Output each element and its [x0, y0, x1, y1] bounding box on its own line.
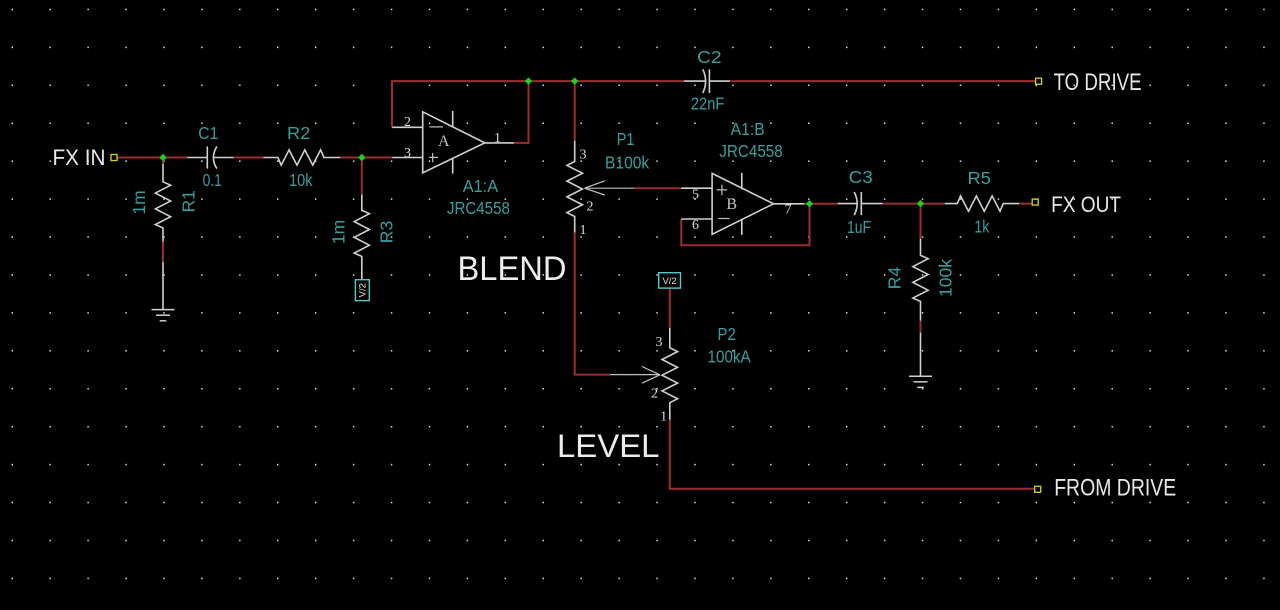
- wire C1 to R2: [234, 157, 264, 159]
- resistor R5: [945, 196, 1019, 211]
- port FX IN: [111, 155, 117, 161]
- wire V/2 label to P2 pin3: [669, 288, 671, 328]
- svg-text:2: 2: [587, 200, 594, 215]
- wire P1 pin1 to P2 wiper: [575, 232, 611, 374]
- svg-text:R4: R4: [884, 267, 904, 290]
- wire op-amp B output to C3: [804, 203, 838, 205]
- potentiometer P1: [567, 141, 635, 233]
- junction node at P1 top rail: [571, 77, 578, 84]
- svg-text:B: B: [726, 196, 737, 213]
- svg-text:3: 3: [404, 146, 411, 161]
- svg-text:R3: R3: [376, 221, 396, 243]
- op-amp U1A (A1:A): [392, 111, 514, 174]
- svg-text:1uF: 1uF: [847, 217, 871, 237]
- svg-text:3: 3: [656, 335, 663, 350]
- svg-text:P1: P1: [617, 129, 635, 149]
- svg-text:FX IN: FX IN: [53, 145, 106, 170]
- net label V/2 at P2: [659, 273, 681, 288]
- svg-text:5: 5: [692, 188, 699, 203]
- svg-text:R1: R1: [179, 190, 199, 212]
- wire R5 to FX OUT: [1019, 203, 1032, 205]
- svg-text:LEVEL: LEVEL: [557, 428, 660, 464]
- wire R2 to op-amp pin3: [340, 157, 392, 159]
- junction node at R2 / R3: [358, 154, 365, 161]
- capacitor C3: [838, 192, 883, 215]
- wire node to R1: [162, 158, 164, 164]
- wire R4 to ground: [920, 321, 922, 333]
- wire feedback pin2 to top rail: [392, 81, 684, 127]
- resistor R2: [264, 150, 341, 165]
- svg-text:A: A: [438, 133, 450, 150]
- wire node to R4: [920, 204, 922, 239]
- svg-text:1: 1: [494, 131, 501, 146]
- svg-text:BLEND: BLEND: [458, 250, 567, 288]
- svg-text:TO DRIVE: TO DRIVE: [1054, 69, 1142, 96]
- op-amp U1B (A1:B): [681, 173, 804, 235]
- svg-text:0.1: 0.1: [203, 170, 222, 190]
- svg-text:1m: 1m: [129, 190, 149, 214]
- svg-text:C1: C1: [198, 123, 218, 143]
- ground at R4: [909, 376, 932, 387]
- svg-text:100kA: 100kA: [708, 347, 751, 367]
- potentiometer P2: [610, 328, 677, 420]
- wire op-amp A output to top rail: [514, 81, 529, 143]
- svg-text:JRC4558: JRC4558: [447, 198, 510, 218]
- svg-text:FROM DRIVE: FROM DRIVE: [1054, 474, 1176, 501]
- svg-text:R5: R5: [968, 168, 991, 188]
- wire P1 wiper to op-amp B pin5: [635, 187, 682, 189]
- port TO DRIVE: [1036, 78, 1042, 84]
- svg-text:C2: C2: [697, 47, 721, 67]
- wire top rail to P1 pin3: [574, 81, 576, 141]
- junction node at FX IN / R1: [159, 154, 166, 161]
- wire FX IN to C1: [118, 157, 188, 159]
- svg-text:R2: R2: [287, 123, 310, 143]
- svg-text:A1:B: A1:B: [731, 119, 765, 139]
- svg-text:10k: 10k: [289, 170, 313, 190]
- svg-text:A1:A: A1:A: [463, 176, 499, 196]
- svg-text:100k: 100k: [936, 259, 956, 297]
- svg-text:1: 1: [580, 223, 587, 238]
- net label V/2 at R3: [355, 280, 369, 301]
- svg-text:22nF: 22nF: [691, 94, 725, 114]
- svg-text:P2: P2: [718, 324, 736, 344]
- resistor R1: [155, 164, 170, 310]
- svg-text:2: 2: [651, 387, 658, 402]
- capacitor C1: [187, 146, 233, 168]
- svg-text:3: 3: [580, 148, 587, 163]
- junction node at op-amp B output: [806, 200, 813, 207]
- svg-text:FX OUT: FX OUT: [1051, 192, 1121, 217]
- svg-text:JRC4558: JRC4558: [719, 141, 783, 161]
- wire top rail C2 to TO DRIVE: [730, 80, 1036, 82]
- ground at R1: [152, 310, 175, 321]
- junction node at op-amp A output rail: [525, 77, 532, 84]
- port FROM DRIVE: [1035, 486, 1041, 492]
- svg-text:1: 1: [660, 410, 667, 425]
- port FX OUT: [1032, 199, 1038, 205]
- svg-text:6: 6: [692, 218, 699, 233]
- wire op-amp B feedback: [681, 204, 809, 245]
- svg-text:7: 7: [785, 202, 792, 217]
- svg-text:C3: C3: [849, 167, 873, 187]
- svg-text:1k: 1k: [974, 217, 989, 237]
- junction node at C3 / R4: [917, 200, 924, 207]
- wire P2 pin1 to FROM DRIVE: [670, 420, 1035, 489]
- svg-text:V/2: V/2: [662, 276, 676, 287]
- wire node to R3: [361, 158, 363, 195]
- wire R1 to ground: [162, 241, 164, 262]
- svg-text:2: 2: [404, 115, 411, 130]
- svg-text:1m: 1m: [329, 220, 349, 244]
- resistor R3: [354, 195, 369, 280]
- capacitor C2: [684, 69, 730, 93]
- wire C3 to R5 node: [883, 203, 945, 205]
- resistor R4: [913, 239, 928, 376]
- svg-text:V/2: V/2: [358, 283, 369, 297]
- svg-text:B100k: B100k: [605, 152, 649, 172]
